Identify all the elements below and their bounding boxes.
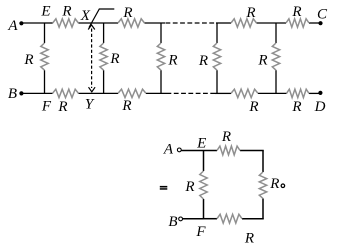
resistor R4 (top rail, col5 to C): [286, 19, 309, 27]
svg-text:A: A: [163, 142, 174, 158]
svg-text:B: B: [168, 214, 177, 230]
subscript o of Ro: [281, 184, 285, 188]
vertical wire col4 lower stub: [216, 70, 218, 93]
wire R1 to col2 (through node X): [78, 22, 118, 24]
resistor R3 (top rail, col4 to col5): [231, 19, 257, 27]
right branch upper stub: [262, 151, 264, 173]
wire E to R1: [45, 22, 53, 24]
resistor R7 (bottom rail, col4 to col5): [231, 89, 258, 97]
svg-text:R: R: [57, 99, 67, 115]
svg-text:E: E: [40, 4, 50, 20]
shunt resistor col3: [157, 43, 164, 70]
vertical wire col2 X-Y upper stub: [103, 23, 105, 43]
svg-text:R: R: [122, 5, 132, 21]
terminal B wire: [21, 92, 52, 94]
svg-text:R: R: [121, 98, 131, 114]
resistor R5 (bottom rail, F to Y): [53, 89, 79, 97]
shunt resistor col1 (between E and F): [41, 43, 48, 70]
dashed bottom rail continuation: [167, 92, 216, 94]
shunt resistor col5: [272, 43, 279, 70]
terminal dot C: [318, 21, 322, 25]
open terminal circle A: [177, 148, 181, 152]
vertical wire col3 upper stub: [160, 23, 162, 43]
equals sign: [160, 186, 168, 190]
resistor R2 (top rail, col2 to col3): [118, 19, 145, 27]
terminal A wire: [21, 22, 44, 24]
resistor R1 (top rail, E to X): [53, 19, 79, 27]
dashed arrow X to Y: [91, 29, 93, 89]
right branch lower stub: [262, 199, 264, 219]
svg-text:F: F: [195, 224, 206, 240]
vertical wire col1 E-F upper stub: [44, 23, 46, 43]
open terminal circle B: [179, 217, 183, 221]
cut mark slash at node X: [89, 9, 114, 28]
wire R3 to col5: [257, 22, 287, 24]
resistor R8 (bottom rail, col5 to D): [287, 89, 310, 97]
wire node E to top resistor: [204, 150, 218, 152]
svg-text:R: R: [291, 4, 301, 20]
wire R4 to terminal C: [309, 22, 321, 24]
resistor R (equivalent top, E to corner): [217, 146, 240, 155]
svg-text:R: R: [184, 179, 194, 195]
left branch lower stub: [203, 199, 205, 219]
wire R8 to terminal D: [309, 92, 320, 94]
svg-text:B: B: [8, 86, 17, 102]
wire col4 to R7: [215, 92, 231, 94]
wire R2 to col3: [145, 22, 166, 24]
shunt resistor col4: [213, 43, 220, 70]
resistor R (equivalent bottom, F to corner): [217, 214, 242, 223]
wire R5 to col2 (through node Y): [79, 92, 119, 94]
svg-text:R: R: [248, 99, 258, 115]
vertical wire col4 upper stub: [216, 23, 218, 43]
svg-text:R: R: [245, 5, 255, 21]
svg-text:R: R: [257, 53, 267, 69]
vertical wire col3 lower stub: [160, 70, 162, 93]
svg-text:R: R: [221, 129, 231, 145]
svg-text:R: R: [291, 99, 301, 115]
svg-text:R: R: [109, 51, 119, 67]
svg-text:D: D: [314, 99, 326, 115]
arrowhead at X: [88, 25, 95, 30]
svg-text:R: R: [167, 53, 177, 69]
wire A terminal to node E: [181, 150, 203, 152]
svg-text:R: R: [198, 53, 208, 69]
dashed top rail continuation: [166, 22, 217, 24]
terminal dot D: [318, 91, 322, 95]
wire R6 to col3: [146, 92, 167, 94]
vertical wire col2 X-Y lower stub: [103, 70, 105, 93]
shunt resistor col2 (between X and Y): [100, 43, 107, 70]
svg-text:C: C: [317, 7, 328, 23]
wire bottom resistor to bottom-right corner: [242, 218, 264, 220]
wire B terminal to node F: [183, 218, 204, 220]
wire top resistor to top-right corner: [240, 150, 264, 152]
vertical wire col5 upper stub: [275, 23, 277, 43]
svg-text:R: R: [244, 231, 254, 244]
resistor R (equivalent left branch, E to F): [200, 171, 207, 199]
svg-text:E: E: [196, 136, 206, 152]
svg-text:R: R: [61, 4, 71, 20]
svg-text:X: X: [80, 8, 91, 24]
terminal dot A: [19, 21, 23, 25]
wire node F to bottom resistor: [204, 218, 218, 220]
arrowhead at Y: [89, 87, 96, 92]
resistor R6 (bottom rail, col2 to col3): [118, 89, 146, 97]
svg-text:R: R: [23, 52, 33, 68]
vertical wire col1 E-F lower stub: [44, 70, 46, 93]
terminal dot B: [19, 91, 23, 95]
svg-text:R: R: [269, 176, 279, 192]
wire R7 to col5: [258, 92, 287, 94]
vertical wire col5 lower stub: [275, 70, 277, 93]
wire col4 to R3: [216, 22, 231, 24]
svg-text:F: F: [41, 99, 52, 115]
left branch upper stub: [203, 151, 205, 172]
resistor Ro (equivalent right branch): [259, 172, 266, 199]
svg-text:A: A: [7, 18, 18, 34]
